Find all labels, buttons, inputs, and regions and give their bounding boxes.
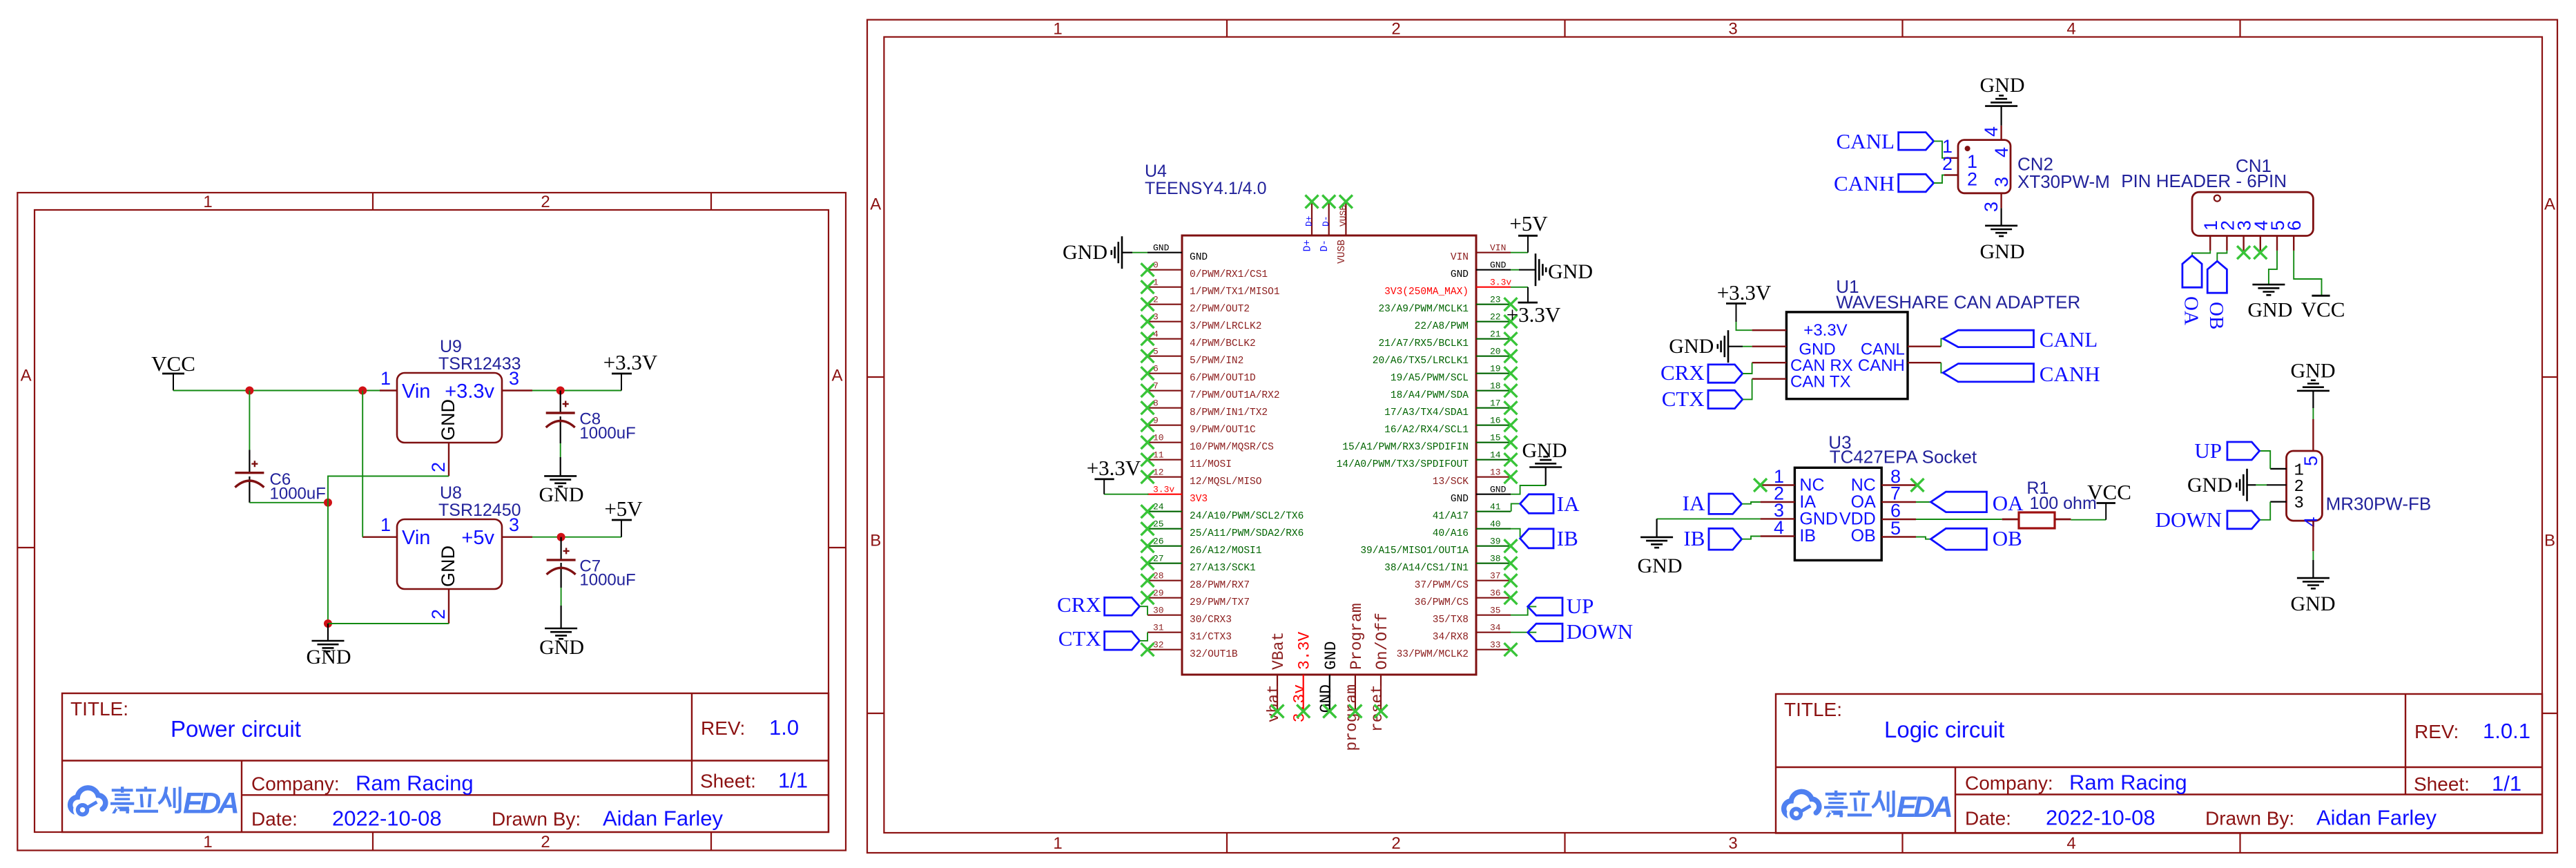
U4 right pin 18 (18/A4/PWM/SDA) xyxy=(1391,381,1511,402)
no-connect pin 36 xyxy=(1504,591,1518,604)
svg-text:30: 30 xyxy=(1153,606,1164,616)
svg-text:21/A7/RX5/BCLK1: 21/A7/RX5/BCLK1 xyxy=(1378,338,1469,349)
svg-text:VBat: VBat xyxy=(1270,632,1288,670)
CN1 pin 2 xyxy=(2217,220,2238,251)
svg-text:CANH: CANH xyxy=(2040,362,2100,386)
svg-text:28: 28 xyxy=(1153,571,1164,581)
svg-text:VCC: VCC xyxy=(2301,298,2345,322)
voltage regulator U9 TSR12433 xyxy=(380,337,532,476)
connector CN1 PIN HEADER - 6PIN xyxy=(2121,155,2313,236)
svg-text:CANL: CANL xyxy=(1837,129,1895,153)
no-connect pin 5 xyxy=(1141,349,1154,363)
svg-text:XT30PW-M: XT30PW-M xyxy=(2017,171,2110,192)
svg-text:EDA: EDA xyxy=(183,787,238,820)
svg-text:CAN TX: CAN TX xyxy=(1790,373,1851,392)
svg-text:2: 2 xyxy=(541,193,550,211)
svg-text:GND: GND xyxy=(1322,642,1340,670)
svg-text:4: 4 xyxy=(1774,517,1784,538)
net port OB flag U3 xyxy=(1930,528,1986,550)
svg-text:15/A1/PWM/RX3/SPDIFIN: 15/A1/PWM/RX3/SPDIFIN xyxy=(1342,442,1469,453)
U4 right pin 15 (15/A1/PWM/RX3/SPDIFIN) xyxy=(1342,433,1511,454)
no-connect pin 3.3v xyxy=(1297,705,1310,718)
wire 3V3 right xyxy=(1511,287,1528,288)
svg-text:2: 2 xyxy=(428,609,449,619)
svg-text:24/A10/PWM/SCL2/TX6: 24/A10/PWM/SCL2/TX6 xyxy=(1190,511,1304,522)
svg-text:25/A11/PWM/SDA2/RX6: 25/A11/PWM/SDA2/RX6 xyxy=(1190,528,1304,539)
wire U4 GND left xyxy=(1132,252,1147,253)
svg-text:3: 3 xyxy=(1728,20,1737,39)
U4 bottom pin Program xyxy=(1343,603,1366,751)
microcontroller U4 TEENSY4.1/4.0 xyxy=(1145,162,1476,675)
svg-text:IB: IB xyxy=(1799,526,1816,546)
svg-text:14: 14 xyxy=(1490,450,1501,461)
svg-text:2: 2 xyxy=(1391,834,1400,853)
no-connect pin 8 xyxy=(1141,401,1154,414)
no-connect pin 18 xyxy=(1504,384,1518,397)
U4 left pin 28 (28/PWM/RX7) xyxy=(1147,571,1250,592)
svg-text:D-: D- xyxy=(1319,240,1330,251)
ground symbol U4 left xyxy=(1112,236,1122,269)
svg-text:14/A0/PWM/TX3/SPDIFOUT: 14/A0/PWM/TX3/SPDIFOUT xyxy=(1337,459,1469,470)
MR30 pin 4 bottom xyxy=(2312,521,2314,551)
svg-text:24: 24 xyxy=(1153,502,1164,512)
svg-text:GND: GND xyxy=(1522,439,1567,462)
svg-text:26: 26 xyxy=(1153,537,1164,547)
U4 right pin 16 (16/A2/RX4/SCL1) xyxy=(1384,416,1511,436)
svg-text:GND: GND xyxy=(2291,360,2336,383)
ground at U4 GND left pin xyxy=(1122,252,1132,253)
no-connect pin program xyxy=(1348,705,1362,718)
svg-text:4: 4 xyxy=(2066,834,2075,853)
svg-text:Logic circuit: Logic circuit xyxy=(1884,717,2004,742)
U4 right pin 38 (38/A14/CS1/IN1) xyxy=(1384,554,1511,575)
svg-text:GND: GND xyxy=(307,646,351,668)
svg-text:15: 15 xyxy=(1490,433,1501,443)
svg-text:2: 2 xyxy=(428,462,449,472)
no-connect pin 28 xyxy=(1141,574,1154,587)
svg-text:program: program xyxy=(1343,684,1361,751)
CN1 pin 4 xyxy=(2251,220,2272,251)
U4 bottom pin On/Off xyxy=(1368,613,1391,732)
no-connect pin 37 xyxy=(1504,574,1518,587)
svg-text:VCC: VCC xyxy=(2087,480,2131,504)
svg-text:29: 29 xyxy=(1153,588,1164,599)
junction VCC/C6 xyxy=(245,387,253,395)
U4 right pin 39 (39/A15/MISO1/OUT1A) xyxy=(1360,537,1511,557)
net port OB (U3 right) xyxy=(1916,537,1931,539)
svg-text:38/A14/CS1/IN1: 38/A14/CS1/IN1 xyxy=(1384,563,1469,574)
svg-text:GND: GND xyxy=(438,546,458,587)
svg-text:17: 17 xyxy=(1490,398,1501,409)
svg-text:D+: D+ xyxy=(1303,240,1314,251)
svg-text:11: 11 xyxy=(1153,450,1164,461)
svg-text:1: 1 xyxy=(1053,834,1062,853)
svg-text:U8: U8 xyxy=(440,483,462,503)
svg-text:CTX: CTX xyxy=(1058,626,1101,650)
no-connect CN1 pin 3 xyxy=(2237,246,2250,259)
svg-text:CTX: CTX xyxy=(1662,387,1705,411)
svg-text:20/A6/TX5/LRCLK1: 20/A6/TX5/LRCLK1 xyxy=(1373,356,1469,367)
svg-text:41/A17: 41/A17 xyxy=(1433,511,1469,522)
svg-text:1: 1 xyxy=(203,833,212,851)
svg-text:9/PWM/OUT1C: 9/PWM/OUT1C xyxy=(1190,425,1256,436)
svg-text:3: 3 xyxy=(1153,312,1159,322)
svg-text:GND: GND xyxy=(1190,252,1208,263)
ground symbol CN2 top xyxy=(1985,95,2017,106)
JLC EDA logo xyxy=(1784,791,1951,824)
svg-text:A: A xyxy=(2544,195,2555,214)
svg-text:DOWN: DOWN xyxy=(2156,508,2222,532)
svg-text:1: 1 xyxy=(203,193,212,211)
wire GND to U1 xyxy=(1743,346,1752,347)
no-connect pin 2 xyxy=(1141,298,1154,311)
svg-text:Sheet:: Sheet: xyxy=(700,770,756,791)
svg-text:13: 13 xyxy=(1490,467,1501,478)
net port DOWN (at U4) xyxy=(1511,632,1536,633)
capacitor C6 plates xyxy=(235,461,264,488)
svg-text:Sheet:: Sheet: xyxy=(2414,773,2470,795)
ground below CN2 xyxy=(2001,208,2002,226)
svg-text:EDA: EDA xyxy=(1897,791,1951,824)
svg-text:GND: GND xyxy=(539,636,584,659)
svg-text:5: 5 xyxy=(1153,347,1159,357)
svg-text:27: 27 xyxy=(1153,554,1164,564)
svg-text:8: 8 xyxy=(1153,398,1159,409)
no-connect pin 11 xyxy=(1141,453,1154,466)
svg-text:29/PWM/TX7: 29/PWM/TX7 xyxy=(1190,597,1250,608)
net port CANL flag U1 xyxy=(1943,330,2033,347)
svg-text:Vin: Vin xyxy=(402,527,430,549)
svg-text:CANL: CANL xyxy=(2040,327,2098,351)
svg-text:9: 9 xyxy=(1153,416,1159,426)
wire GND to MR30 xyxy=(2256,484,2267,485)
U4 right pin 33 (33/PWM/MCLK2) xyxy=(1397,640,1511,661)
no-connect pin 7 xyxy=(1141,384,1154,397)
svg-text:3: 3 xyxy=(509,514,519,535)
svg-text:18: 18 xyxy=(1490,381,1501,392)
svg-text:GND: GND xyxy=(1451,494,1469,505)
net flag +3.3V at U1 xyxy=(1736,321,1752,330)
net port CANH (U1 right) xyxy=(1941,363,1943,373)
U4 left pin 30 (30/CRX3) xyxy=(1147,606,1232,626)
svg-text:27/A13/SCK1: 27/A13/SCK1 xyxy=(1190,563,1256,574)
U4 right pin 37 (37/PWM/CS) xyxy=(1415,571,1511,592)
MR30 pin2 / GND xyxy=(2247,484,2256,485)
svg-text:DOWN: DOWN xyxy=(1567,619,1633,644)
svg-text:2: 2 xyxy=(1391,20,1400,39)
wire GND mid xyxy=(1545,467,1547,486)
svg-text:39: 39 xyxy=(1490,537,1501,547)
no-connect pin 19 xyxy=(1504,367,1518,380)
no-connect pin 23 xyxy=(1504,298,1518,311)
ground at CN1 pin5 xyxy=(2269,251,2277,284)
wire U9 GND pin to node xyxy=(328,476,449,624)
no-connect pin 25 xyxy=(1141,522,1154,535)
svg-text:CANH: CANH xyxy=(1834,171,1895,195)
svg-text:vbat: vbat xyxy=(1265,684,1283,722)
svg-text:IA: IA xyxy=(1557,492,1580,516)
svg-text:22: 22 xyxy=(1490,312,1501,322)
svg-text:37/PWM/CS: 37/PWM/CS xyxy=(1415,580,1469,591)
right title block xyxy=(1776,694,2542,833)
U4 left pin 6 (6/PWM/OUT1D) xyxy=(1147,364,1256,385)
svg-text:30/CRX3: 30/CRX3 xyxy=(1190,615,1232,626)
svg-text:+3.3V: +3.3V xyxy=(1717,280,1772,305)
U4 right pin 36 (36/PWM/CS) xyxy=(1415,588,1511,609)
svg-text:35/TX8: 35/TX8 xyxy=(1433,615,1469,626)
ground symbol C7 xyxy=(545,628,577,639)
no-connect pin 24 xyxy=(1141,505,1154,518)
svg-text:Ram Racing: Ram Racing xyxy=(2069,771,2187,795)
U4 left pin 2 (2/PWM/OUT2) xyxy=(1147,295,1250,316)
IC U3 TC427EPA Socket xyxy=(1761,432,1977,560)
net flag VCC xyxy=(151,351,195,391)
svg-text:4/PWM/BCLK2: 4/PWM/BCLK2 xyxy=(1190,338,1256,349)
svg-text:1: 1 xyxy=(380,368,391,389)
left title block xyxy=(62,693,829,832)
svg-text:31: 31 xyxy=(1153,623,1164,633)
net port UP flag MR30 xyxy=(2227,442,2260,460)
svg-text:REV:: REV: xyxy=(701,717,745,739)
svg-text:A: A xyxy=(831,367,842,385)
svg-text:OA: OA xyxy=(2180,296,2202,325)
svg-text:4: 4 xyxy=(2066,20,2075,39)
svg-text:B: B xyxy=(2544,532,2555,550)
svg-text:VUSB: VUSB xyxy=(1337,240,1348,264)
svg-text:+3.3V: +3.3V xyxy=(603,350,658,374)
svg-text:6: 6 xyxy=(1153,364,1159,374)
U4 left pin 24 (24/A10/PWM/SCL2/TX6) xyxy=(1147,502,1304,523)
svg-text:4: 4 xyxy=(2301,517,2321,528)
MR30 pin 5 top xyxy=(2312,419,2314,451)
capacitor C8 leads xyxy=(560,391,561,476)
junction C6/GND-net xyxy=(324,499,332,507)
svg-text:7/PWM/OUT1A/RX2: 7/PWM/OUT1A/RX2 xyxy=(1190,390,1280,401)
svg-text:A: A xyxy=(870,195,881,214)
U4 right pin 21 (21/A7/RX5/BCLK1) xyxy=(1378,329,1511,350)
capacitor C7 leads xyxy=(560,537,561,628)
svg-text:IB: IB xyxy=(1683,526,1705,550)
U4 top pin D- xyxy=(1319,202,1331,251)
ground symbol U4 right xyxy=(1536,253,1546,286)
svg-text:Aidan Farley: Aidan Farley xyxy=(603,806,724,830)
svg-text:GND: GND xyxy=(1490,485,1507,495)
svg-text:1: 1 xyxy=(380,514,391,535)
wire U9 out to +3.3V xyxy=(532,390,621,392)
svg-text:Drawn By:: Drawn By: xyxy=(2205,808,2294,829)
U4 left pin 9 (9/PWM/OUT1C) xyxy=(1147,416,1256,436)
no-connect U3 pin 1 xyxy=(1754,479,1767,492)
svg-text:20: 20 xyxy=(1490,347,1501,357)
U4 right pin 20 (20/A6/TX5/LRCLK1) xyxy=(1373,347,1511,367)
net port IA xyxy=(1511,503,1520,511)
net port OB flag xyxy=(2207,261,2227,293)
svg-text:Power circuit: Power circuit xyxy=(171,716,301,742)
svg-text:8/PWM/IN1/TX2: 8/PWM/IN1/TX2 xyxy=(1190,407,1268,418)
no-connect pin 39 xyxy=(1504,539,1518,552)
U4 top pin D+ xyxy=(1303,202,1315,251)
wire VCC to C6 xyxy=(249,391,250,450)
svg-text:+3.3V: +3.3V xyxy=(1507,302,1561,327)
U4 left pin 10 (10/PWM/MQSR/CS) xyxy=(1147,433,1274,454)
no-connect pin D- xyxy=(1322,195,1335,209)
net port CANL (U1 right) xyxy=(1941,338,1943,346)
ground symbol CN2 bottom xyxy=(1985,226,2017,236)
svg-text:3.3v: 3.3v xyxy=(1153,485,1174,495)
svg-text:Vin: Vin xyxy=(402,380,430,403)
MR30 pin1 / UP xyxy=(2270,468,2286,470)
net port DOWN flag MR30 xyxy=(2227,511,2260,529)
U4 right pin 13 (13/SCK) xyxy=(1433,467,1511,488)
U4 left pin GND (GND) xyxy=(1147,243,1208,264)
U4 left pin 26 (26/A12/MOSI1) xyxy=(1147,537,1261,557)
svg-text:2: 2 xyxy=(1153,295,1159,305)
no-connect CN1 pin 4 xyxy=(2254,246,2267,259)
svg-text:+3.3V: +3.3V xyxy=(1803,321,1847,340)
net port OA flag U3 xyxy=(1930,492,1986,512)
no-connect pin reset xyxy=(1375,705,1388,718)
svg-text:31/CTX3: 31/CTX3 xyxy=(1190,632,1232,643)
svg-text:TC427EPA Socket: TC427EPA Socket xyxy=(1830,446,1977,467)
svg-text:36: 36 xyxy=(1490,588,1501,599)
net port UP (at U4) xyxy=(1511,606,1536,615)
junction VCC/U8-Vin xyxy=(358,387,367,395)
ground symbol MR30 top xyxy=(2297,380,2330,391)
svg-text:5/PWM/IN2: 5/PWM/IN2 xyxy=(1190,356,1243,367)
net port CANH flag U1 xyxy=(1943,364,2033,382)
svg-text:18/A4/PWM/SDA: 18/A4/PWM/SDA xyxy=(1391,390,1469,401)
svg-text:+3.3V: +3.3V xyxy=(1087,456,1141,480)
CN1 pin 3 xyxy=(2234,220,2255,251)
svg-text:GND: GND xyxy=(1490,260,1507,271)
U4 bottom pin VBat xyxy=(1265,632,1288,722)
U4 left pin 5 (5/PWM/IN2) xyxy=(1147,347,1243,367)
svg-text:4: 4 xyxy=(1981,126,2002,137)
svg-text:4: 4 xyxy=(1153,329,1159,340)
svg-text:1/PWM/TX1/MISO1: 1/PWM/TX1/MISO1 xyxy=(1190,287,1280,298)
connector CN2 XT30PW-M xyxy=(1942,126,2110,212)
connector MR30PW-FB xyxy=(2287,451,2432,528)
no-connect pin 6 xyxy=(1141,367,1154,380)
wire MR30 pin4 GND xyxy=(2312,551,2314,560)
net port CRX flag xyxy=(1105,597,1140,615)
ground symbol U4 mid flipped xyxy=(1529,456,1562,467)
no-connect pin 16 xyxy=(1504,418,1518,432)
wire C8 to GND xyxy=(560,443,561,457)
U4 left pin 3.3v (3V3) xyxy=(1147,485,1208,505)
right sheet border frame xyxy=(867,20,2557,853)
svg-text:GND: GND xyxy=(2247,299,2292,322)
svg-text:2022-10-08: 2022-10-08 xyxy=(332,806,442,830)
U4 right pin GND (GND) xyxy=(1451,485,1511,505)
svg-text:GND: GND xyxy=(1063,241,1107,264)
net port OA flag xyxy=(2182,255,2202,287)
svg-text:17/A3/TX4/SDA1: 17/A3/TX4/SDA1 xyxy=(1384,407,1469,418)
svg-text:TITLE:: TITLE: xyxy=(70,698,128,720)
svg-text:REV:: REV: xyxy=(2414,721,2459,742)
wire VIN xyxy=(1511,252,1528,253)
net flag VCC at R1 xyxy=(2087,480,2131,520)
svg-text:35: 35 xyxy=(1490,606,1501,616)
svg-text:GND: GND xyxy=(1980,240,2025,263)
wire U3 VDD to R1 xyxy=(1916,519,2002,520)
CN1 pin 6 xyxy=(2284,220,2305,251)
U4 right pin VIN (VIN) xyxy=(1451,243,1511,264)
U4 left pin 29 (29/PWM/TX7) xyxy=(1147,588,1250,609)
no-connect pin 0 xyxy=(1141,263,1154,276)
no-connect pin 10 xyxy=(1141,436,1154,449)
svg-text:2/PWM/OUT2: 2/PWM/OUT2 xyxy=(1190,304,1250,315)
svg-text:23: 23 xyxy=(1490,295,1501,305)
no-connect pin VUSB xyxy=(1339,195,1353,209)
U4 left pin 7 (7/PWM/OUT1A/RX2) xyxy=(1147,381,1280,402)
capacitor C7 plates xyxy=(547,548,576,575)
svg-text:WAVESHARE CAN ADAPTER: WAVESHARE CAN ADAPTER xyxy=(1836,291,2080,312)
svg-text:Date:: Date: xyxy=(251,808,298,829)
no-connect pin 17 xyxy=(1504,401,1518,414)
CN1 pin 1 xyxy=(2200,220,2221,251)
svg-text:10/PWM/MQSR/CS: 10/PWM/MQSR/CS xyxy=(1190,442,1274,453)
U4 right pin 19 (19/A5/PWM/SCL) xyxy=(1391,364,1511,385)
svg-text:6: 6 xyxy=(2284,220,2305,231)
svg-text:3: 3 xyxy=(509,368,519,389)
svg-text:Program: Program xyxy=(1348,603,1366,670)
ground above CN2 xyxy=(2001,106,2002,126)
svg-text:4: 4 xyxy=(1991,147,2012,157)
ground symbol CN1 xyxy=(2252,284,2285,295)
svg-text:OB: OB xyxy=(2205,302,2227,329)
wire MR30 pin5 GND xyxy=(2312,408,2314,419)
svg-text:23/A9/PWM/MCLK1: 23/A9/PWM/MCLK1 xyxy=(1378,304,1469,315)
wire 3V3 left xyxy=(1104,494,1148,495)
U4 left pin 11 (11/MOSI) xyxy=(1147,450,1232,471)
svg-text:33: 33 xyxy=(1490,640,1501,650)
no-connect pin 22 xyxy=(1504,315,1518,328)
svg-text:1/1: 1/1 xyxy=(778,768,808,792)
svg-text:GND: GND xyxy=(1548,260,1593,283)
svg-text:19/A5/PWM/SCL: 19/A5/PWM/SCL xyxy=(1391,373,1469,384)
svg-text:Company:: Company: xyxy=(1965,773,2053,794)
wire U3 GND xyxy=(1657,518,1761,519)
ground GND (main) xyxy=(327,624,329,641)
ground symbol MR30 left xyxy=(2236,469,2247,501)
svg-text:1: 1 xyxy=(1153,278,1159,288)
junction U8 out/C7 xyxy=(557,533,565,541)
svg-text:MR30PW-FB: MR30PW-FB xyxy=(2326,494,2432,514)
svg-text:0/PWM/RX1/CS1: 0/PWM/RX1/CS1 xyxy=(1190,269,1268,280)
svg-text:13/SCK: 13/SCK xyxy=(1433,476,1469,488)
U4 right pin 14 (14/A0/PWM/TX3/SPDIFOUT) xyxy=(1337,450,1511,471)
U4 left pin 12 (12/MQSL/MISO) xyxy=(1147,467,1261,488)
svg-text:VCC: VCC xyxy=(151,351,195,376)
U4 right pin 22 (22/A8/PWM) xyxy=(1415,312,1511,333)
ground at U1 GND pin xyxy=(1728,346,1743,347)
no-connect pin 29 xyxy=(1141,591,1154,604)
svg-text:41: 41 xyxy=(1490,502,1501,512)
svg-text:10: 10 xyxy=(1153,433,1164,443)
svg-text:3.3V: 3.3V xyxy=(1296,632,1314,670)
svg-text:Company:: Company: xyxy=(251,773,340,794)
svg-text:Ram Racing: Ram Racing xyxy=(356,771,474,795)
no-connect pin 12 xyxy=(1141,470,1154,483)
svg-text:11/MOSI: 11/MOSI xyxy=(1190,459,1232,470)
svg-text:A: A xyxy=(21,367,32,385)
voltage regulator U8 TSR12450 xyxy=(362,483,532,624)
U4 right pin 35 (35/TX8) xyxy=(1433,606,1511,626)
svg-text:32/OUT1B: 32/OUT1B xyxy=(1190,649,1238,660)
ground symbol MR30 bottom xyxy=(2297,578,2330,588)
svg-text:3V3(250MA_MAX): 3V3(250MA_MAX) xyxy=(1384,287,1469,298)
